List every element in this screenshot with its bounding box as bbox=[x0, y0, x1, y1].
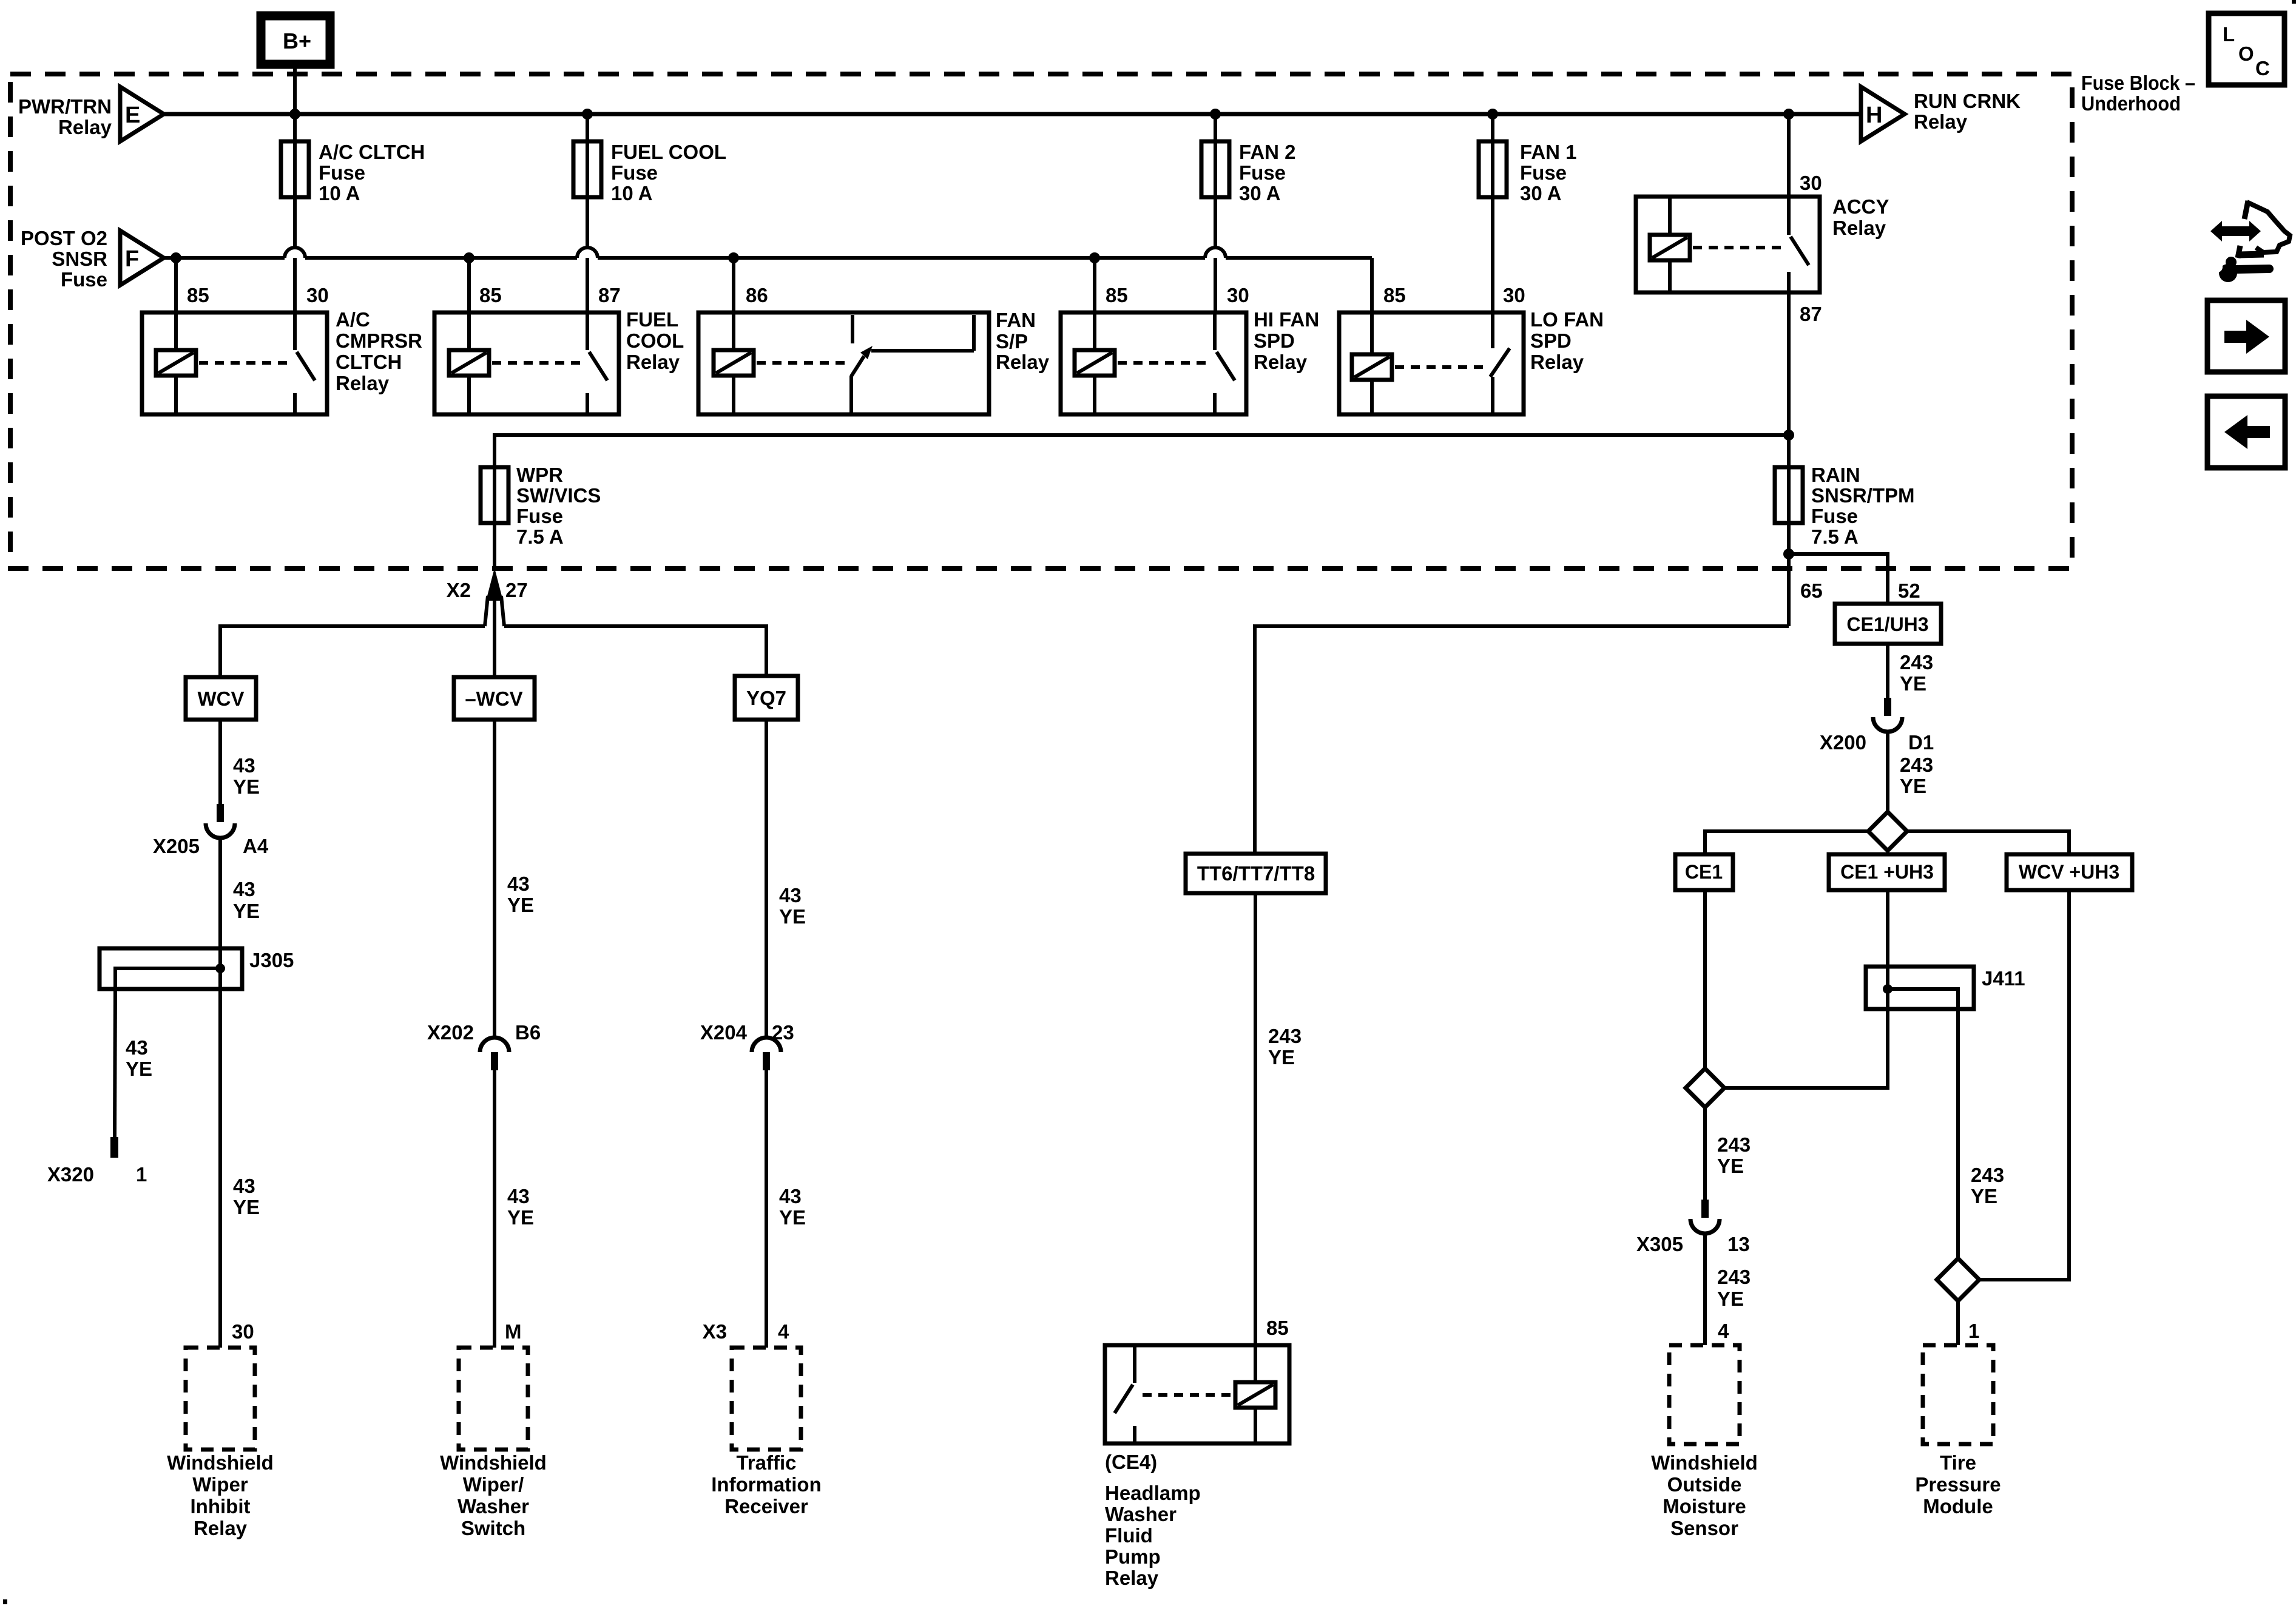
svg-text:4: 4 bbox=[1718, 1320, 1729, 1342]
svg-text:30 A: 30 A bbox=[1520, 182, 1561, 204]
svg-text:Fuse: Fuse bbox=[1811, 505, 1858, 527]
svg-text:13: 13 bbox=[1727, 1233, 1750, 1255]
svg-text:243: 243 bbox=[1268, 1025, 1302, 1047]
svg-text:FUEL COOL: FUEL COOL bbox=[611, 141, 726, 163]
svg-text:43: 43 bbox=[507, 1185, 530, 1207]
component Windshield Outside Moisture Sensor bbox=[1651, 1345, 1758, 1539]
svg-text:Fuse: Fuse bbox=[516, 505, 563, 527]
pin 85 wire HI FAN relay bbox=[1093, 258, 1096, 312]
splice diamond tire bbox=[1937, 1258, 1979, 1301]
svg-text:Fuse: Fuse bbox=[319, 161, 365, 184]
svg-text:CLTCH: CLTCH bbox=[336, 351, 402, 373]
relay Headlamp Washer Fluid Pump (CE4) bbox=[1105, 1345, 1289, 1589]
wire 65 run to TT6 drop bbox=[1255, 626, 1789, 854]
svg-text:POST O2: POST O2 bbox=[21, 227, 107, 249]
svg-text:43: 43 bbox=[233, 878, 255, 900]
svg-text:PWR/TRN: PWR/TRN bbox=[18, 95, 112, 118]
svg-text:SNSR: SNSR bbox=[52, 248, 107, 270]
svg-text:COOL: COOL bbox=[626, 329, 684, 352]
fuse FAN 1 30A bbox=[1479, 114, 1577, 312]
pin 86 wire FAN S/P relay bbox=[732, 258, 735, 312]
svg-text:Fuse: Fuse bbox=[1520, 161, 1567, 184]
wire TT6 to headlamp washer relay bbox=[1254, 893, 1257, 1345]
svg-text:7.5 A: 7.5 A bbox=[516, 525, 564, 548]
svg-text:85: 85 bbox=[1383, 284, 1406, 306]
svg-text:YE: YE bbox=[233, 775, 260, 798]
svg-text:RUN CRNK: RUN CRNK bbox=[1914, 90, 2021, 112]
svg-text:FAN 2: FAN 2 bbox=[1239, 141, 1296, 163]
svg-text:YE: YE bbox=[507, 894, 534, 916]
svg-text:HI FAN: HI FAN bbox=[1254, 308, 1319, 331]
svg-text:65: 65 bbox=[1800, 579, 1823, 602]
svg-text:Relay: Relay bbox=[1105, 1567, 1159, 1589]
svg-text:85: 85 bbox=[1266, 1317, 1289, 1339]
svg-text:Fuse: Fuse bbox=[61, 268, 107, 291]
wire ACCY 87 down bbox=[1787, 292, 1791, 467]
svg-text:Fuse: Fuse bbox=[1239, 161, 1286, 184]
svg-text:243: 243 bbox=[1971, 1164, 2004, 1186]
net box TT6/TT7/TT8 bbox=[1186, 854, 1326, 893]
svg-text:X2: X2 bbox=[447, 579, 471, 601]
svg-text:TT6/TT7/TT8: TT6/TT7/TT8 bbox=[1197, 862, 1315, 885]
wire X305 to moisture sensor bbox=[1703, 1234, 1707, 1345]
svg-text:85: 85 bbox=[187, 284, 209, 306]
svg-text:1: 1 bbox=[1968, 1320, 1979, 1342]
net box WCV +UH3 bbox=[2007, 854, 2132, 890]
svg-text:YQ7: YQ7 bbox=[746, 687, 786, 709]
svg-text:–WCV: –WCV bbox=[465, 687, 522, 710]
svg-text:Pump: Pump bbox=[1105, 1545, 1161, 1568]
svg-text:30 A: 30 A bbox=[1239, 182, 1280, 204]
svg-text:A/C: A/C bbox=[336, 308, 370, 331]
svg-text:10 A: 10 A bbox=[319, 182, 360, 204]
connector X204 23 bbox=[700, 1021, 794, 1070]
svg-text:Relay: Relay bbox=[1254, 351, 1308, 373]
svg-text:E: E bbox=[125, 103, 140, 128]
wire J305 down to inhibit relay bbox=[218, 989, 222, 1348]
svg-text:YE: YE bbox=[233, 1196, 260, 1218]
pin 85 wire LO FAN relay bbox=[1370, 258, 1374, 312]
wire hop over FUEL COOL fuse wire bbox=[577, 248, 598, 258]
svg-text:43: 43 bbox=[233, 754, 255, 777]
branch wire left to WCV bbox=[220, 626, 485, 677]
svg-text:X200: X200 bbox=[1820, 731, 1866, 754]
svg-text:SW/VICS: SW/VICS bbox=[516, 484, 601, 507]
junction node FAN S/P relay 86 bbox=[728, 252, 739, 263]
svg-text:O: O bbox=[2238, 42, 2254, 65]
wire WCV+UH3 to tire diamond bbox=[1979, 890, 2069, 1280]
svg-text:30: 30 bbox=[1503, 284, 1525, 306]
svg-text:SPD: SPD bbox=[1530, 329, 1572, 352]
fuse FUEL COOL 10A bbox=[573, 114, 726, 248]
connector X205 A4 bbox=[153, 804, 269, 857]
svg-text:RAIN: RAIN bbox=[1811, 464, 1860, 486]
wire X200 to splice diamond bbox=[1886, 732, 1889, 812]
wire WPR fuse to splice bbox=[493, 523, 496, 570]
wire CE1 to moisture diamond bbox=[1703, 890, 1707, 1068]
wire J411 left leg to moisture diamond bbox=[1724, 1009, 1888, 1088]
svg-text:Relay: Relay bbox=[58, 116, 112, 138]
svg-text:43: 43 bbox=[779, 884, 802, 906]
svg-text:243: 243 bbox=[1900, 651, 1933, 673]
svg-text:Inhibit: Inhibit bbox=[191, 1495, 251, 1517]
svg-text:A/C CLTCH: A/C CLTCH bbox=[319, 141, 425, 163]
svg-text:C: C bbox=[2255, 57, 2270, 79]
connector triangle E (PWR/TRN Relay) bbox=[18, 87, 164, 141]
wire bus to ACCY relay 30 bbox=[1787, 114, 1791, 197]
svg-text:10 A: 10 A bbox=[611, 182, 652, 204]
svg-text:X305: X305 bbox=[1636, 1233, 1683, 1255]
svg-text:B6: B6 bbox=[515, 1021, 541, 1044]
svg-text:Windshield: Windshield bbox=[167, 1451, 274, 1474]
junction node at ACCY relay feed bbox=[1783, 109, 1794, 120]
svg-text:B+: B+ bbox=[283, 29, 311, 53]
svg-text:Underhood: Underhood bbox=[2081, 92, 2181, 115]
wire A/C fuse to relay 30 bbox=[293, 258, 297, 312]
svg-text:YE: YE bbox=[779, 1206, 806, 1229]
wire B+ to bus bbox=[293, 64, 297, 114]
svg-text:S/P: S/P bbox=[996, 330, 1028, 353]
svg-text:Headlamp: Headlamp bbox=[1105, 1482, 1201, 1504]
connector X200 D1 bbox=[1820, 698, 1934, 754]
LOC reference box bbox=[2209, 13, 2284, 85]
svg-text:30: 30 bbox=[306, 284, 329, 306]
svg-text:X3: X3 bbox=[703, 1320, 727, 1343]
wire hop over A/C CLTCH fuse wire bbox=[285, 248, 305, 258]
svg-text:YE: YE bbox=[1717, 1155, 1744, 1177]
wire YQ7 down bbox=[765, 720, 768, 1039]
junction node FUEL COOL relay 85 bbox=[464, 252, 474, 263]
svg-text:Fuse: Fuse bbox=[611, 161, 658, 184]
svg-text:85: 85 bbox=[479, 284, 502, 306]
relay HI FAN SPD bbox=[1061, 308, 1319, 414]
svg-text:X205: X205 bbox=[153, 835, 200, 857]
svg-text:Fuse Block –: Fuse Block – bbox=[2081, 72, 2195, 94]
splice J305 bbox=[100, 948, 294, 989]
svg-text:SNSR/TPM: SNSR/TPM bbox=[1811, 484, 1915, 507]
connector X305 13 bbox=[1636, 1200, 1750, 1255]
svg-text:CE1: CE1 bbox=[1685, 861, 1723, 883]
svg-text:FAN 1: FAN 1 bbox=[1520, 141, 1577, 163]
svg-text:F: F bbox=[125, 246, 139, 272]
wire X205 to J305 bbox=[218, 838, 222, 948]
svg-text:WCV +UH3: WCV +UH3 bbox=[2019, 861, 2119, 883]
svg-text:Fluid: Fluid bbox=[1105, 1524, 1153, 1547]
net box CE1 bbox=[1675, 854, 1733, 890]
fuse A/C CLTCH 10A bbox=[281, 114, 425, 248]
svg-text:30: 30 bbox=[1227, 284, 1249, 306]
component Tire Pressure Module bbox=[1915, 1345, 2001, 1517]
svg-text:WCV: WCV bbox=[198, 687, 245, 710]
svg-text:86: 86 bbox=[746, 284, 768, 306]
pin 85 wire FUEL COOL relay bbox=[467, 258, 471, 312]
svg-text:43: 43 bbox=[233, 1175, 255, 1197]
page mark top right bbox=[2292, 0, 2296, 4]
svg-text:Relay: Relay bbox=[626, 351, 680, 373]
junction node at FAN 2 fuse bbox=[1210, 109, 1221, 120]
fuse block - underhood dashed border bbox=[10, 74, 2072, 569]
svg-text:CE1/UH3: CE1/UH3 bbox=[1846, 613, 1928, 635]
svg-text:52: 52 bbox=[1898, 579, 1920, 602]
svg-text:1: 1 bbox=[136, 1163, 147, 1186]
svg-text:Traffic: Traffic bbox=[736, 1451, 796, 1474]
svg-text:85: 85 bbox=[1106, 284, 1128, 306]
svg-text:FAN: FAN bbox=[996, 309, 1036, 331]
svg-text:Relay: Relay bbox=[1832, 217, 1886, 239]
svg-text:CMPRSR: CMPRSR bbox=[336, 329, 422, 352]
fuse WPR SW/VICS 7.5A bbox=[481, 464, 601, 548]
wire RAIN fuse output bbox=[1787, 523, 1791, 626]
svg-text:243: 243 bbox=[1900, 754, 1933, 776]
connector triangle F (POST O2 SNSR Fuse) bbox=[21, 227, 164, 291]
svg-text:Wiper: Wiper bbox=[192, 1473, 248, 1496]
svg-text:LO FAN: LO FAN bbox=[1530, 308, 1604, 331]
junction node HI FAN relay 85 bbox=[1089, 252, 1100, 263]
svg-text:H: H bbox=[1866, 103, 1882, 128]
net box CE1/UH3 bbox=[1835, 604, 1941, 644]
svg-text:WPR: WPR bbox=[516, 464, 563, 486]
svg-text:D1: D1 bbox=[1908, 731, 1934, 754]
svg-text:X202: X202 bbox=[427, 1021, 474, 1044]
splice J411 bbox=[1866, 967, 2025, 1009]
connector X202 B6 bbox=[427, 1021, 541, 1070]
wire WPR feed line bbox=[495, 435, 1789, 467]
svg-text:YE: YE bbox=[1900, 672, 1926, 695]
component Traffic Information Receiver bbox=[711, 1348, 821, 1517]
connector triangle H (RUN CRNK Relay) bbox=[1861, 87, 2021, 141]
svg-text:YE: YE bbox=[233, 900, 260, 922]
wire CE1+UH3 to J411 bbox=[1886, 890, 1889, 967]
wire X204 to receiver bbox=[765, 1070, 768, 1348]
icon arrow left box bbox=[2207, 396, 2285, 468]
page mark bottom left bbox=[3, 1599, 7, 1604]
svg-text:M: M bbox=[505, 1320, 522, 1343]
icon arrow right box bbox=[2207, 300, 2285, 372]
svg-text:A4: A4 bbox=[243, 835, 269, 857]
svg-text:243: 243 bbox=[1717, 1266, 1751, 1288]
junction node fuse output bbox=[1783, 549, 1794, 559]
relay LO FAN SPD bbox=[1339, 308, 1604, 414]
svg-text:243: 243 bbox=[1717, 1133, 1751, 1156]
svg-text:Wiper/: Wiper/ bbox=[463, 1473, 524, 1496]
svg-text:Information: Information bbox=[711, 1473, 821, 1496]
svg-text:YE: YE bbox=[1268, 1046, 1295, 1068]
svg-text:Windshield: Windshield bbox=[1651, 1451, 1758, 1474]
fuse FAN 2 30A bbox=[1201, 114, 1296, 248]
pin 85 wire A/C relay bbox=[174, 258, 178, 312]
svg-text:Module: Module bbox=[1923, 1495, 1993, 1517]
svg-text:Relay: Relay bbox=[1530, 351, 1584, 373]
svg-text:43: 43 bbox=[507, 873, 530, 895]
svg-text:J411: J411 bbox=[1982, 967, 2025, 990]
svg-text:43: 43 bbox=[779, 1185, 802, 1207]
svg-text:Windshield: Windshield bbox=[440, 1451, 547, 1474]
svg-text:23: 23 bbox=[772, 1021, 794, 1044]
connector X320 pin 1 open end bbox=[47, 1137, 147, 1186]
branch wire right to YQ7 bbox=[504, 626, 766, 676]
svg-text:Washer: Washer bbox=[1105, 1503, 1177, 1525]
svg-text:Receiver: Receiver bbox=[724, 1495, 808, 1517]
svg-text:Sensor: Sensor bbox=[1670, 1517, 1738, 1539]
svg-text:Relay: Relay bbox=[194, 1517, 248, 1539]
net box WCV bbox=[186, 677, 256, 720]
svg-text:Washer: Washer bbox=[458, 1495, 529, 1517]
svg-text:X204: X204 bbox=[700, 1021, 748, 1044]
svg-text:Outside: Outside bbox=[1667, 1473, 1742, 1496]
junction node at FAN 1 fuse bbox=[1487, 109, 1498, 120]
svg-text:YE: YE bbox=[1971, 1185, 1997, 1207]
splice diamond D1 bbox=[1868, 812, 1907, 851]
wire CE1/UH3 down bbox=[1886, 644, 1889, 698]
wire hop over FAN 2 fuse wire bbox=[1205, 248, 1226, 258]
svg-text:SPD: SPD bbox=[1254, 329, 1295, 352]
splice diamond moisture bbox=[1686, 1068, 1724, 1107]
svg-text:(CE4): (CE4) bbox=[1105, 1451, 1157, 1473]
svg-text:X320: X320 bbox=[47, 1163, 94, 1186]
wire FUEL COOL fuse to relay 87 bbox=[586, 258, 589, 312]
svg-text:Relay: Relay bbox=[336, 372, 390, 394]
net box YQ7 bbox=[735, 676, 798, 720]
svg-text:Moisture: Moisture bbox=[1663, 1495, 1746, 1517]
wire branch to pin 52 bbox=[1789, 554, 1888, 604]
component Windshield Wiper/Washer Switch bbox=[440, 1348, 547, 1539]
svg-text:J305: J305 bbox=[249, 949, 294, 971]
component Windshield Wiper Inhibit Relay bbox=[167, 1348, 274, 1539]
svg-text:L: L bbox=[2223, 23, 2235, 46]
svg-text:30: 30 bbox=[1800, 172, 1822, 194]
wire F line corner down to LO FAN 85 bbox=[1370, 258, 1374, 312]
svg-text:FUEL: FUEL bbox=[626, 308, 678, 331]
svg-text:YE: YE bbox=[507, 1206, 534, 1229]
svg-text:CE1 +UH3: CE1 +UH3 bbox=[1840, 861, 1934, 883]
svg-text:ACCY: ACCY bbox=[1832, 195, 1889, 218]
splice arrow into fuse block bbox=[485, 568, 504, 677]
svg-text:87: 87 bbox=[598, 284, 621, 306]
second feed line from F with hops bbox=[164, 256, 1372, 260]
svg-text:Tire: Tire bbox=[1940, 1451, 1976, 1474]
power bus wire bbox=[164, 112, 1861, 116]
svg-text:27: 27 bbox=[505, 579, 528, 601]
relay ACCY bbox=[1636, 195, 1889, 292]
wire diamond to tire module bbox=[1956, 1301, 1960, 1345]
svg-text:Pressure: Pressure bbox=[1915, 1473, 2001, 1496]
net box CE1 +UH3 bbox=[1829, 854, 1945, 890]
svg-text:4: 4 bbox=[778, 1320, 789, 1343]
svg-text:YE: YE bbox=[126, 1058, 152, 1080]
svg-text:43: 43 bbox=[126, 1036, 148, 1059]
wire WCV down bbox=[218, 720, 222, 804]
B+ terminal bbox=[261, 16, 330, 64]
junction node A/C relay 85 bbox=[171, 252, 181, 263]
svg-text:7.5 A: 7.5 A bbox=[1811, 525, 1859, 548]
wire diamond to CE1 bbox=[1705, 831, 1868, 854]
wire X202 to wiper switch bbox=[493, 1070, 496, 1348]
fuse RAIN SNSR/TPM 7.5A bbox=[1775, 464, 1915, 548]
svg-text:Relay: Relay bbox=[996, 351, 1050, 373]
junction node at A/C CLTCH fuse bbox=[289, 109, 300, 120]
wire diamond to WCV +UH3 bbox=[1907, 831, 2069, 854]
svg-text:Switch: Switch bbox=[461, 1517, 525, 1539]
svg-text:YE: YE bbox=[1900, 775, 1926, 797]
icon vehicle outline with arrow and wrench bbox=[2210, 201, 2290, 282]
net box -WCV bbox=[454, 677, 535, 720]
svg-text:YE: YE bbox=[1717, 1288, 1744, 1310]
svg-text:YE: YE bbox=[779, 905, 806, 928]
relay A/C CMPRSR CLTCH bbox=[142, 308, 422, 414]
svg-text:30: 30 bbox=[232, 1320, 254, 1343]
relay FUEL COOL bbox=[434, 308, 684, 414]
relay FAN S/P bbox=[698, 309, 1050, 414]
wire FAN 2 fuse to HI FAN relay 30 bbox=[1214, 258, 1217, 312]
wire J305 branch to X320 bbox=[115, 989, 115, 1137]
svg-text:87: 87 bbox=[1800, 303, 1822, 325]
junction node at FUEL COOL fuse bbox=[582, 109, 593, 120]
svg-text:Relay: Relay bbox=[1914, 110, 1968, 133]
junction node WPR feed bbox=[1783, 430, 1794, 441]
wire -WCV down bbox=[493, 720, 496, 1039]
wire J411 right leg down bbox=[1956, 1009, 1960, 1258]
wire diamond to X305 bbox=[1703, 1107, 1707, 1200]
